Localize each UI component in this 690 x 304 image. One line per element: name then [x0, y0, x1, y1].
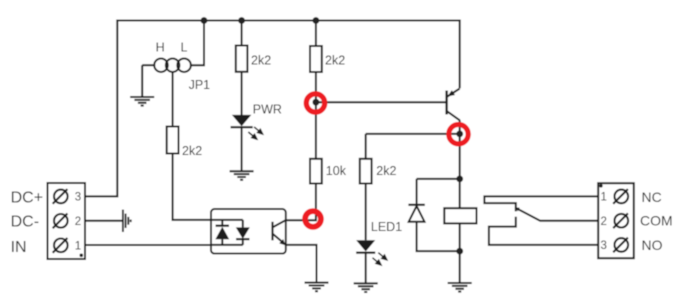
svg-text:1: 1 [75, 240, 81, 252]
svg-text:2k2: 2k2 [251, 54, 271, 68]
svg-text:3: 3 [601, 240, 607, 252]
svg-text:H: H [156, 41, 165, 55]
svg-text:2k2: 2k2 [376, 164, 396, 178]
svg-text:JP1: JP1 [189, 78, 211, 92]
svg-text:LED1: LED1 [371, 220, 402, 234]
svg-text:L: L [181, 41, 188, 55]
svg-text:2: 2 [75, 216, 81, 228]
svg-text:COM: COM [640, 213, 673, 229]
svg-text:DC-: DC- [11, 214, 39, 231]
svg-text:NO: NO [642, 237, 663, 253]
svg-text:1: 1 [601, 192, 607, 204]
svg-text:2k2: 2k2 [182, 144, 202, 158]
svg-text:2: 2 [601, 216, 607, 228]
svg-text:3: 3 [75, 192, 81, 204]
svg-text:2k2: 2k2 [325, 54, 345, 68]
svg-text:10k: 10k [326, 164, 347, 178]
svg-text:DC+: DC+ [11, 189, 43, 206]
svg-text:NC: NC [642, 189, 662, 205]
svg-text:PWR: PWR [253, 102, 282, 116]
svg-text:IN: IN [11, 239, 27, 256]
